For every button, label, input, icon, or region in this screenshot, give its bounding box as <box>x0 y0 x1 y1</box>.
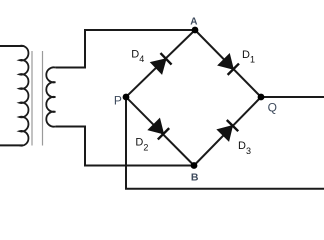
svg-text:Q: Q <box>268 101 277 115</box>
wire: bridge arm A to Q <box>195 30 261 97</box>
wire: AC input top to primary <box>0 45 23 47</box>
transformer core <box>32 51 43 146</box>
node B <box>191 162 198 169</box>
svg-text:P: P <box>114 94 122 108</box>
transformer primary winding <box>20 46 29 146</box>
node Q <box>258 94 265 101</box>
diode D3 <box>217 120 238 141</box>
svg-text:A: A <box>190 17 197 28</box>
svg-text:B: B <box>191 172 199 184</box>
wire: node Q to right output <box>261 96 324 98</box>
wire: secondary top to node A <box>55 30 195 68</box>
diode D2 <box>148 119 169 140</box>
wire: AC input bottom to primary <box>0 144 23 146</box>
diode D4 <box>151 53 172 74</box>
wire: bridge arm P to A <box>126 30 195 97</box>
diode D1 <box>218 54 239 75</box>
wire: secondary bottom to node B <box>55 127 194 166</box>
node P <box>123 94 130 101</box>
node A <box>192 27 199 34</box>
transformer secondary winding <box>46 67 55 126</box>
wire: bridge arm P to B <box>126 97 194 166</box>
wire: bridge arm B to Q <box>194 97 261 166</box>
wire: node P to lower output rail <box>126 97 324 189</box>
